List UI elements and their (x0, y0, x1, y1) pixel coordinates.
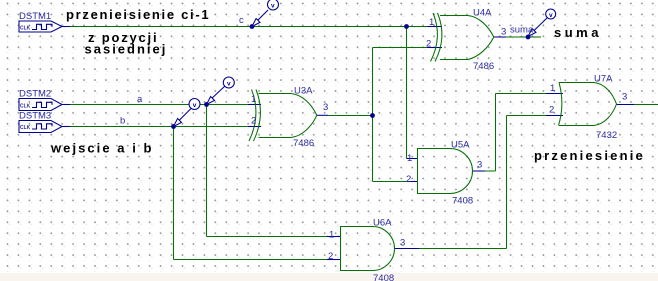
svg-text:7408: 7408 (452, 196, 473, 207)
svg-text:1: 1 (550, 83, 555, 94)
svg-text:1: 1 (407, 153, 412, 164)
svg-text:7408: 7408 (373, 273, 394, 281)
wire: b vertical from junction (173,126) down to U6A pin2 (174, 127, 342, 260)
wire: U5A output up to U7A pin1 (473, 94, 564, 172)
voltage marker V on node c (252, 0, 279, 27)
svg-text:suma: suma (510, 25, 534, 36)
digital stimulus DSTM3 (19, 111, 62, 133)
svg-text:przeniesienie: przeniesienie (534, 148, 645, 163)
svg-text:3: 3 (501, 27, 506, 38)
svg-text:3: 3 (622, 92, 627, 103)
svg-text:v: v (227, 81, 231, 88)
wire: U6A output right and up to U7A pin2 (395, 116, 563, 249)
svg-text:2: 2 (328, 251, 333, 262)
wire: U3A output to junction (373,115) (317, 114, 373, 116)
svg-text:wejscie a i b: wejscie a i b (50, 141, 154, 156)
wire: node b from DSTM3 to junction x=173 (62, 126, 173, 128)
wire: node c from x=252 to junction x=406 (252, 26, 406, 28)
xor gate U3A 7486 (249, 86, 328, 150)
svg-text:CLK: CLK (20, 125, 31, 131)
svg-text:2: 2 (426, 39, 431, 50)
svg-text:7486: 7486 (293, 138, 314, 149)
wire: node a from junction to U3A pin1 (206, 104, 261, 106)
wire: node c from DSTM1 to junction at x=252 (62, 26, 252, 28)
junction node c-probe (252,26) (250, 24, 255, 29)
svg-text:7432: 7432 (596, 130, 617, 141)
svg-text:CLK: CLK (20, 104, 31, 110)
svg-text:U6A: U6A (373, 218, 392, 229)
or gate U7A 7432 (549, 74, 627, 142)
svg-text:sasiedniej: sasiedniej (85, 42, 168, 57)
junction suma probe (528,37) (526, 35, 531, 40)
svg-text:1: 1 (251, 94, 256, 105)
svg-text:suma: suma (554, 25, 602, 40)
svg-text:2: 2 (251, 116, 256, 127)
xor gate U4A 7486 (426, 8, 506, 73)
svg-text:U4A: U4A (473, 8, 492, 19)
junction node a (206,104) (204, 102, 209, 107)
digital stimulus DSTM1 (19, 11, 62, 32)
digital stimulus DSTM2 (19, 89, 62, 111)
svg-text:U3A: U3A (294, 86, 313, 97)
junction node c tee (406,26) (404, 24, 409, 29)
junction s1 tee (373,115) (370, 113, 375, 118)
svg-text:U7A: U7A (594, 74, 613, 85)
svg-text:b: b (120, 116, 125, 127)
svg-text:CLK: CLK (20, 26, 31, 32)
wire: c vertical from junction (406,26) down to U5A pin1 (407, 27, 419, 159)
and gate U6A 7408 (328, 218, 405, 281)
voltage marker V on node a (207, 77, 235, 105)
svg-text:c: c (239, 15, 244, 26)
svg-text:7486: 7486 (473, 61, 494, 72)
wire: a vertical from junction (206,104) down to U6A pin1 (207, 105, 342, 237)
svg-text:a: a (137, 94, 143, 105)
wire: node c from junction to U4A pin1 (406, 26, 442, 28)
bottom margin band (0, 273, 658, 281)
wire: s1 up from junction to U4A pin2 (373, 48, 443, 116)
svg-text:2: 2 (549, 105, 554, 116)
svg-text:3: 3 (400, 238, 405, 249)
svg-text:3: 3 (477, 160, 482, 171)
junction node b (173,126) (171, 124, 176, 129)
svg-text:U5A: U5A (451, 140, 470, 151)
wire: s1 down from junction to U5A pin2 (373, 116, 419, 182)
svg-text:DSTM2: DSTM2 (19, 89, 51, 100)
svg-text:1: 1 (429, 17, 434, 28)
and gate U5A 7408 (406, 140, 482, 207)
wire: U4A output suma stub (494, 36, 541, 38)
svg-text:v: v (549, 12, 553, 19)
voltage marker V on node b (174, 99, 201, 127)
svg-text:przenieisienie ci-1: przenieisienie ci-1 (66, 7, 210, 22)
svg-text:1: 1 (329, 230, 334, 241)
svg-text:DSTM3: DSTM3 (19, 111, 51, 122)
voltage marker V on suma output (528, 9, 556, 37)
wire: U7A output to right edge (616, 104, 658, 106)
svg-text:2: 2 (406, 174, 411, 185)
svg-text:3: 3 (323, 102, 328, 113)
svg-text:DSTM1: DSTM1 (19, 11, 51, 22)
svg-text:v: v (193, 102, 197, 109)
wire: node a from DSTM2 to junction x=206 (62, 104, 206, 106)
wire: node b from junction to U3A pin2 (173, 126, 261, 128)
svg-text:v: v (271, 3, 275, 10)
